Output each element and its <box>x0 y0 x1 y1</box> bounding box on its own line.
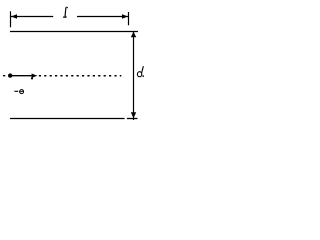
dimension l: right shaft <box>77 16 128 18</box>
bottom plate (left part) <box>10 118 125 120</box>
background <box>0 0 152 126</box>
top plate <box>10 31 138 33</box>
dimension l: left arrowhead <box>11 14 17 18</box>
label -e : minus sign <box>14 90 18 92</box>
label -e : letter e <box>20 90 24 94</box>
label l <box>63 7 68 17</box>
dimension l: left extension tick <box>10 11 12 27</box>
speck below arrowhead <box>31 77 33 79</box>
electron: leading dash <box>3 75 5 77</box>
dotted trajectory <box>39 75 122 77</box>
dimension l: right extension tick <box>128 12 130 25</box>
bottom plate (right part past small gap) <box>127 118 138 120</box>
dimension d: bottom arrowhead <box>131 112 136 118</box>
label d <box>137 66 144 77</box>
electron dot <box>8 73 12 77</box>
dimension d: top arrowhead <box>131 32 136 37</box>
dimension d: vertical line <box>133 32 135 121</box>
electron velocity arrow shaft <box>10 75 32 77</box>
dimension l: right arrowhead <box>122 14 128 18</box>
dimension l: left shaft <box>11 16 53 18</box>
electron velocity arrowhead <box>32 74 38 78</box>
